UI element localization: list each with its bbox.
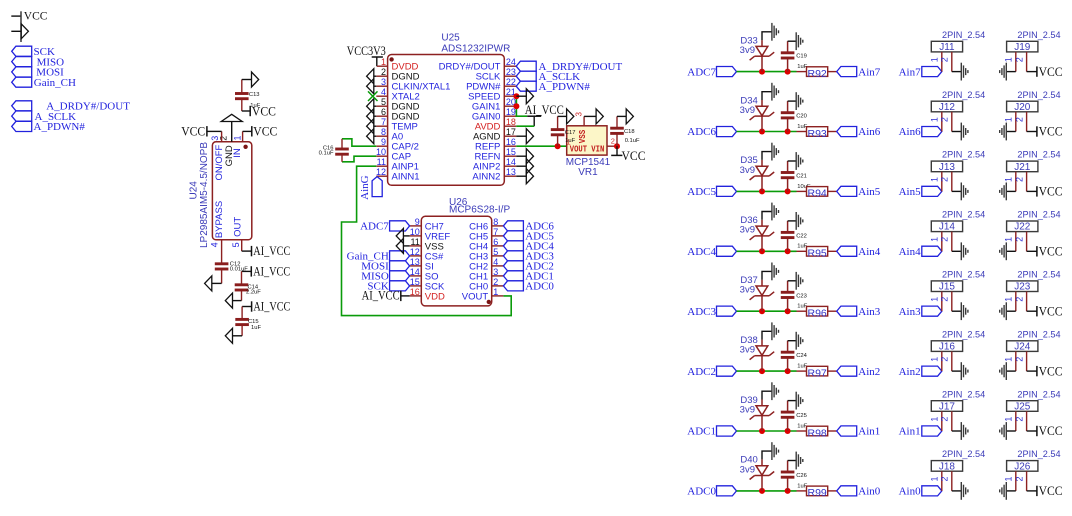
wire C15 to ground arrow	[233, 335, 243, 337]
wire J23 pin 1 to ground	[1006, 310, 1016, 312]
ground at J17	[960, 422, 962, 440]
U25 pin 15 lead	[504, 155, 516, 157]
resistor R96	[797, 306, 837, 316]
U26 pin 11 lead	[410, 245, 422, 247]
svg-text:AINN1: AINN1	[392, 172, 420, 183]
J15 pin 2 lead	[951, 292, 953, 312]
svg-text:ADC6: ADC6	[687, 126, 716, 138]
connector J26 2PIN_2.54	[1007, 449, 1061, 472]
port MISO	[12, 56, 64, 68]
svg-text:R93: R93	[808, 128, 827, 140]
resistor R93	[797, 127, 837, 137]
ground arrow at U25 pin 8	[367, 129, 377, 144]
capacitor C18 0.1uF	[610, 116, 624, 146]
zener diode D34 3v9	[750, 100, 775, 132]
svg-text:ADC0: ADC0	[525, 281, 554, 293]
wire net AI_VCC pins 21-19 (green vertical)	[516, 96, 527, 116]
svg-text:2PIN_2.54: 2PIN_2.54	[942, 150, 985, 161]
svg-text:1: 1	[1003, 357, 1013, 362]
ground arrow at C17	[567, 109, 574, 124]
U26 pin 8 lead	[492, 225, 504, 227]
svg-text:2PIN_2.54: 2PIN_2.54	[1017, 389, 1060, 400]
svg-text:Ain2: Ain2	[899, 366, 921, 378]
J13 pin 1 lead	[941, 172, 943, 192]
svg-text:J17: J17	[939, 401, 956, 412]
zener diode D33 3v9	[750, 40, 775, 72]
junction at C21	[785, 188, 791, 194]
port Ain2 (row output)	[837, 366, 881, 378]
port Ain4 at J14	[899, 246, 942, 258]
U26 pin 10 lead	[410, 235, 422, 237]
U25 pin 18 lead	[504, 125, 516, 127]
connector J18 2PIN_2.54	[931, 449, 985, 472]
svg-text:1: 1	[1003, 476, 1013, 481]
U26 pin 5 lead	[492, 255, 504, 257]
svg-text:J14: J14	[939, 222, 956, 233]
svg-text:Ain7: Ain7	[899, 66, 922, 78]
port A_SCLK	[12, 111, 76, 123]
svg-text:BYPASS: BYPASS	[214, 201, 225, 238]
off-page arrow (top-left)	[11, 24, 28, 39]
power flag AI_VCC above C14	[242, 264, 291, 278]
port Ain6 at J12	[899, 126, 942, 138]
U25 pin 17 lead	[504, 135, 516, 137]
connector J12 2PIN_2.54	[931, 90, 985, 113]
svg-text:1: 1	[929, 237, 939, 242]
wire C12 to ground arrow	[212, 282, 222, 284]
ground at J14	[960, 242, 962, 260]
U25 pin 5 lead	[376, 105, 387, 107]
power flag VCC at J19	[1027, 65, 1063, 79]
ground at C26	[795, 452, 797, 470]
svg-text:Ain2: Ain2	[858, 366, 880, 378]
port Ain4 (row output)	[837, 246, 881, 258]
svg-text:J15: J15	[939, 282, 956, 293]
svg-text:AI_VCC: AI_VCC	[525, 103, 564, 117]
junction at D39	[759, 428, 765, 434]
svg-text:R95: R95	[808, 248, 827, 260]
svg-text:AI_VCC: AI_VCC	[253, 264, 290, 278]
ground arrow at U25 pin 2	[367, 69, 377, 84]
J24 pin 2 lead	[1026, 351, 1028, 371]
svg-text:ADC0: ADC0	[687, 486, 716, 498]
J20 pin 1 lead	[1015, 112, 1017, 132]
U25 pin 3 lead	[376, 85, 387, 87]
svg-text:Ain4: Ain4	[899, 246, 922, 258]
svg-text:Ain1: Ain1	[858, 426, 880, 438]
power flag VCC at J20	[1027, 125, 1063, 139]
wire VR1 VIN to VCC	[607, 145, 617, 147]
power flag AI_VCC at U24 pin 5	[242, 244, 291, 258]
svg-text:1: 1	[1003, 177, 1013, 182]
ground arrow at U26 left pin	[396, 238, 409, 253]
junction at C20	[785, 129, 791, 135]
voltage reference VR1 MCP1541 body	[567, 126, 607, 155]
wire net AinG (U26 VOUT to U25 AINP1 loop)	[342, 166, 512, 315]
power flag VCC at J24	[1027, 364, 1063, 378]
svg-text:R96: R96	[808, 308, 827, 320]
wire J24 pin 1 to ground	[1006, 370, 1016, 372]
wire J16 pin 2 to ground	[952, 370, 962, 372]
zener diode D38 3v9	[750, 340, 775, 372]
ground at C23	[795, 272, 797, 290]
U24 pin-1 marker dot	[243, 145, 247, 149]
U26 pin 6 lead	[492, 245, 504, 247]
U26 pin 14 lead	[410, 275, 422, 277]
svg-text:2PIN_2.54: 2PIN_2.54	[942, 389, 985, 400]
wire U25 pin 10 CAP to C16	[342, 156, 376, 162]
junction at VR1 VIN	[614, 143, 620, 149]
U25 pin 24 lead	[504, 65, 516, 67]
J20 pin 2 lead	[1026, 112, 1028, 132]
ground at D35	[771, 143, 773, 161]
J22 pin 1 lead	[1015, 232, 1017, 252]
svg-text:0.1uF: 0.1uF	[625, 138, 640, 144]
connector J11 2PIN_2.54	[931, 30, 985, 53]
svg-text:1: 1	[1003, 57, 1013, 62]
svg-text:OUT: OUT	[232, 217, 243, 237]
svg-text:J25: J25	[1014, 401, 1031, 412]
svg-text:2PIN_2.54: 2PIN_2.54	[942, 30, 985, 41]
U26 pin 9 lead	[410, 225, 422, 227]
svg-text:1: 1	[1003, 117, 1013, 122]
svg-text:Ain0: Ain0	[899, 486, 922, 498]
U26 pin 16 lead	[410, 295, 422, 297]
port ADC0 at U26	[503, 281, 554, 293]
svg-text:J22: J22	[1014, 222, 1031, 233]
zener diode D35 3v9	[750, 160, 775, 192]
ground at D34	[771, 83, 773, 101]
ground at D38	[771, 322, 773, 340]
port MOSI	[12, 67, 64, 79]
U26 pin-1 marker dot	[487, 300, 491, 304]
svg-text:VCC: VCC	[252, 104, 276, 118]
svg-text:VCC: VCC	[1039, 484, 1063, 498]
port A_PDWN#	[12, 121, 86, 133]
U25 pin 4 lead	[376, 95, 387, 97]
U26 pin 15 lead	[410, 285, 422, 287]
U26 pin 7 lead	[492, 235, 504, 237]
svg-text:J13: J13	[939, 162, 956, 173]
U25 pin 11 lead	[376, 165, 387, 167]
svg-text:VCC: VCC	[622, 149, 646, 163]
power flag VCC at U24 pin 3	[181, 124, 221, 138]
U24 pin 2 wire to ground arrow	[231, 122, 233, 142]
capacitor C20 1uF	[781, 101, 795, 131]
svg-text:2: 2	[1014, 297, 1024, 302]
U24 pin 3 lead	[221, 131, 223, 141]
connector J20 2PIN_2.54	[1007, 90, 1061, 113]
ground arrow at C14	[225, 293, 232, 308]
svg-text:1: 1	[929, 177, 939, 182]
IC U25 ADS1232IPWR body	[388, 55, 505, 186]
svg-text:1: 1	[929, 476, 939, 481]
wire J14 pin 2 to ground	[952, 250, 962, 252]
port Ain3 (row output)	[837, 306, 881, 318]
svg-text:1: 1	[929, 117, 939, 122]
ground arrow at C18	[626, 109, 633, 124]
svg-text:2: 2	[940, 357, 950, 362]
svg-text:1: 1	[929, 417, 939, 422]
wire C20 to ground	[788, 100, 797, 102]
J17 pin 2 lead	[951, 411, 953, 431]
U26 pin 12 lead	[410, 255, 422, 257]
J17 pin 1 lead	[941, 411, 943, 431]
port ADC1	[687, 426, 736, 438]
J23 pin 2 lead	[1026, 292, 1028, 312]
svg-text:Ain5: Ain5	[858, 186, 881, 198]
U24 pin 5 lead	[241, 240, 243, 251]
J22 pin 2 lead	[1026, 232, 1028, 252]
port ADC3 at U26	[503, 251, 554, 263]
wire J18 pin 2 to ground	[952, 490, 962, 492]
junction at D35	[759, 188, 765, 194]
svg-text:Ain4: Ain4	[858, 246, 881, 258]
port Ain7 at J11	[899, 66, 942, 78]
wire C25 to ground	[788, 400, 797, 402]
wire net ADC5	[737, 190, 797, 192]
ground at J24	[1005, 362, 1007, 380]
capacitor C17 1uF	[551, 116, 565, 146]
J12 pin 1 lead	[941, 112, 943, 132]
svg-text:J19: J19	[1014, 42, 1031, 53]
ground at J13	[960, 183, 962, 201]
J19 pin 2 lead	[1026, 52, 1028, 72]
junction at D34	[759, 129, 765, 135]
svg-text:VCC: VCC	[1039, 424, 1063, 438]
port Ain1 (row output)	[837, 426, 881, 438]
svg-text:3v9: 3v9	[740, 464, 755, 475]
U26 pin 2 lead	[492, 285, 504, 287]
wire C21 to ground	[788, 160, 797, 162]
svg-text:IN: IN	[232, 148, 243, 158]
J16 pin 2 lead	[951, 351, 953, 371]
connector J22 2PIN_2.54	[1007, 210, 1061, 233]
svg-text:VCC: VCC	[1039, 185, 1063, 199]
port SCK	[12, 46, 55, 58]
ground arrow at U25 pin 6	[367, 109, 377, 124]
capacitor C14 2.2uF	[235, 271, 249, 300]
connector J21 2PIN_2.54	[1007, 150, 1061, 173]
J21 pin 1 lead	[1015, 172, 1017, 192]
svg-text:1uF: 1uF	[251, 325, 261, 331]
svg-text:Ain3: Ain3	[899, 306, 922, 318]
U25 pin 2 lead	[376, 75, 387, 77]
U25 pin 14 lead	[504, 165, 516, 167]
wire AVDD pin 18 to AI_VCC stem	[516, 125, 534, 127]
svg-text:2: 2	[1014, 237, 1024, 242]
svg-text:J16: J16	[939, 342, 956, 353]
junction at U25 pin 20	[513, 103, 519, 109]
svg-text:2: 2	[940, 237, 950, 242]
off-page arrow at U25 pin 21	[516, 89, 533, 104]
svg-text:R92: R92	[808, 68, 827, 80]
wire C14 to ground arrow	[233, 300, 242, 302]
junction at C25	[785, 428, 791, 434]
svg-text:5: 5	[231, 242, 241, 247]
port Gain_CH at U26	[347, 251, 410, 263]
svg-text:VSS: VSS	[577, 130, 588, 144]
power flag VCC at U24 pin 1	[243, 124, 278, 138]
J21 pin 2 lead	[1026, 172, 1028, 192]
wire J15 pin 2 to ground	[952, 310, 962, 312]
svg-text:2: 2	[1014, 177, 1024, 182]
svg-text:2: 2	[1014, 357, 1024, 362]
svg-text:J21: J21	[1014, 162, 1031, 173]
svg-text:U25: U25	[441, 33, 460, 44]
svg-text:2: 2	[1014, 476, 1024, 481]
U24 pin 1 lead	[242, 131, 244, 141]
wire C23 to ground	[788, 280, 797, 282]
J25 pin 1 lead	[1015, 411, 1017, 431]
svg-text:1: 1	[233, 135, 243, 140]
port Ain0 (row output)	[837, 486, 881, 498]
svg-text:ADS1232IPWR: ADS1232IPWR	[441, 43, 510, 54]
port ADC2 at U26	[503, 261, 554, 273]
svg-text:2: 2	[940, 297, 950, 302]
svg-text:R98: R98	[808, 427, 827, 439]
wire net ADC3	[737, 310, 797, 312]
wire D37 to ground	[762, 271, 772, 279]
svg-text:2PIN_2.54: 2PIN_2.54	[1017, 210, 1060, 221]
junction at D40	[759, 488, 765, 494]
svg-text:C24: C24	[796, 353, 807, 359]
svg-text:3v9: 3v9	[740, 404, 755, 415]
ground at J11	[960, 63, 962, 81]
connector J15 2PIN_2.54	[931, 270, 985, 293]
svg-text:2: 2	[940, 117, 950, 122]
svg-text:Gain_CH: Gain_CH	[34, 77, 76, 89]
svg-text:2PIN_2.54: 2PIN_2.54	[1017, 329, 1060, 340]
svg-text:2: 2	[1014, 417, 1024, 422]
ground arrow at C13	[252, 72, 259, 87]
zener diode D40 3v9	[750, 459, 775, 491]
wire C17 to ground arrow	[558, 115, 567, 117]
svg-text:Ain1: Ain1	[899, 426, 921, 438]
capacitor C16 0.1uF	[335, 139, 349, 162]
resistor R92	[797, 67, 837, 77]
svg-text:Ain7: Ain7	[858, 66, 881, 78]
power flag VCC below C18	[611, 146, 645, 163]
svg-text:R99: R99	[808, 487, 827, 499]
svg-text:0.1uF: 0.1uF	[319, 151, 334, 157]
J26 pin 2 lead	[1026, 471, 1028, 491]
ground at J16	[960, 362, 962, 380]
ground arrow at U25 pin 3	[367, 79, 377, 94]
port ADC5	[687, 186, 736, 198]
U25 pin 23 lead	[504, 75, 516, 77]
junction at D37	[759, 308, 765, 314]
ground arrow at C12	[205, 276, 212, 291]
svg-text:C19: C19	[796, 54, 807, 60]
power flag AI_VCC above C15	[242, 300, 290, 314]
wire D35 to ground	[762, 152, 772, 160]
resistor R94	[797, 187, 837, 197]
port ADC5 at U26	[503, 231, 554, 243]
ground at J21	[1005, 183, 1007, 201]
connector J24 2PIN_2.54	[1007, 329, 1061, 352]
zener diode D37 3v9	[750, 280, 775, 312]
port Ain5 (row output)	[837, 186, 881, 198]
junction at C22	[785, 248, 791, 254]
svg-text:VCC: VCC	[253, 124, 277, 138]
wire J19 pin 1 to ground	[1006, 71, 1016, 73]
connector J25 2PIN_2.54	[1007, 389, 1061, 412]
port MISO at U26	[361, 271, 409, 283]
svg-text:2PIN_2.54: 2PIN_2.54	[1017, 270, 1060, 281]
svg-text:VDD: VDD	[425, 291, 445, 302]
port Ain2 at J16	[899, 366, 942, 378]
U25 pin 7 lead	[376, 125, 387, 127]
wire net ADC0	[737, 490, 797, 492]
port ADC3	[687, 306, 736, 318]
svg-text:J23: J23	[1014, 282, 1031, 293]
svg-text:2PIN_2.54: 2PIN_2.54	[1017, 90, 1060, 101]
port MOSI at U26	[361, 261, 409, 273]
J14 pin 1 lead	[941, 232, 943, 252]
svg-text:R97: R97	[808, 367, 827, 379]
svg-text:AinG: AinG	[359, 175, 371, 200]
svg-text:J24: J24	[1014, 342, 1031, 353]
svg-text:1: 1	[1003, 417, 1013, 422]
wire J11 pin 2 to ground	[952, 71, 962, 73]
wire C13 to ground arrow	[242, 79, 252, 81]
power flag VCC at J25	[1027, 424, 1063, 438]
J13 pin 2 lead	[951, 172, 953, 192]
svg-text:VOUT: VOUT	[570, 143, 587, 154]
connector J19 2PIN_2.54	[1007, 30, 1061, 53]
resistor R95	[797, 247, 837, 257]
ground at D33	[771, 23, 773, 41]
ground at D37	[771, 263, 773, 281]
junction at C23	[785, 308, 791, 314]
port A_DRDY#/DOUT	[12, 101, 131, 113]
resistor R99	[797, 486, 837, 496]
wire D38 to ground	[762, 331, 772, 339]
svg-text:J18: J18	[939, 461, 956, 472]
ground at C24	[795, 332, 797, 350]
port Ain5 at J13	[899, 186, 942, 198]
J19 pin 1 lead	[1015, 52, 1017, 72]
svg-text:VCC3V3: VCC3V3	[347, 44, 386, 58]
U26 pin 1 lead	[492, 295, 504, 297]
ground at D39	[771, 382, 773, 400]
ground arrow at C15	[225, 328, 232, 343]
svg-text:C20: C20	[796, 114, 807, 120]
U24 pin 4 lead	[221, 240, 223, 263]
U25 pin 16 lead	[504, 145, 516, 147]
no-connect cross at U25 pin 4 XTAL2	[368, 91, 378, 101]
svg-text:1: 1	[929, 57, 939, 62]
svg-text:J20: J20	[1014, 102, 1031, 113]
svg-text:J26: J26	[1014, 461, 1031, 472]
port ADC7	[687, 66, 736, 78]
power flag VCC at J22	[1027, 245, 1063, 259]
U25 pin 22 lead	[504, 85, 516, 87]
power flag AI_VCC at U26 pin 16 VDD	[362, 289, 410, 303]
connector J14 2PIN_2.54	[931, 210, 985, 233]
U25 pin 13 lead	[504, 175, 516, 177]
svg-text:2: 2	[940, 177, 950, 182]
port Gain_CH	[12, 77, 76, 89]
svg-text:2PIN_2.54: 2PIN_2.54	[942, 329, 985, 340]
U25 pin 21 lead	[504, 95, 516, 97]
svg-text:3v9: 3v9	[740, 225, 755, 236]
zener diode D39 3v9	[750, 400, 775, 432]
power flag VCC below C13	[242, 104, 276, 118]
zener diode D36 3v9	[750, 220, 775, 252]
power flag VCC at J23	[1027, 304, 1063, 318]
